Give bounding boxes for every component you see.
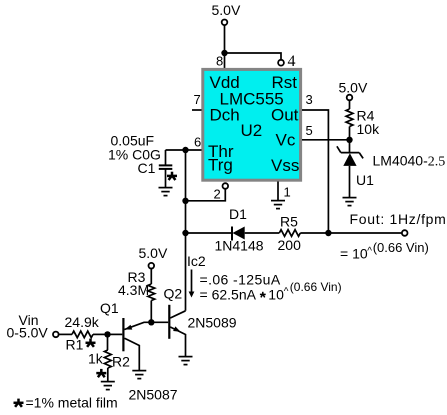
junction Vc/R4/U1 <box>346 137 352 143</box>
svg-text:=.06 -125uA: =.06 -125uA <box>200 272 281 288</box>
asterisk R2 <box>96 369 106 377</box>
Q1 collector <box>125 338 140 370</box>
svg-text:(0.66 Vin): (0.66 Vin) <box>290 280 342 294</box>
wire pin6 to C1 <box>166 149 202 151</box>
svg-text:5.0V: 5.0V <box>139 245 168 261</box>
svg-text:1k: 1k <box>88 351 104 367</box>
small multiply star <box>260 292 266 298</box>
svg-text:5: 5 <box>306 123 313 138</box>
arrow Ic2 <box>191 270 193 295</box>
svg-text:D1: D1 <box>229 206 247 222</box>
wire pin8 stub <box>224 53 226 69</box>
Q1 emitter <box>125 322 152 329</box>
wire vcc vertical <box>224 25 226 53</box>
svg-text:LM4040-2.5: LM4040-2.5 <box>373 153 446 170</box>
resistor R4 <box>349 101 351 110</box>
svg-text:Fout: 1Hz/fpm: Fout: 1Hz/fpm <box>350 211 447 227</box>
resistor R5 <box>279 230 300 237</box>
svg-text:(0.66 Vin): (0.66 Vin) <box>373 240 429 255</box>
wire R1 to node <box>93 333 108 335</box>
svg-text:2N5089: 2N5089 <box>188 315 237 331</box>
terminal 5.0V top <box>222 20 228 26</box>
pin 2 circle <box>223 183 229 189</box>
wire node vertical x=185.5 <box>185 150 187 311</box>
terminal Fout <box>402 230 408 236</box>
junction R1/R2/base <box>104 331 110 337</box>
svg-text:C1: C1 <box>138 160 156 176</box>
svg-text:Out: Out <box>271 106 299 125</box>
wire D1 node to diode <box>186 232 233 234</box>
Q2 collector <box>170 311 185 318</box>
wire pin2 to node <box>186 189 226 201</box>
svg-text:2N5087: 2N5087 <box>129 387 178 403</box>
svg-text:4.3M: 4.3M <box>118 282 149 298</box>
legend asterisk <box>14 399 24 407</box>
svg-text:Dch: Dch <box>210 106 240 125</box>
wire pin5 <box>302 139 350 141</box>
junction Q1 emitter node <box>148 319 154 325</box>
svg-text:1N4148: 1N4148 <box>215 238 264 254</box>
asterisk C1 <box>167 172 177 180</box>
junction pin8/vcc <box>221 50 227 56</box>
svg-text:0-5.0V: 0-5.0V <box>7 325 49 341</box>
svg-text:Vc: Vc <box>276 131 296 150</box>
svg-text:2: 2 <box>214 187 221 202</box>
svg-text:R1: R1 <box>66 337 84 353</box>
Q2 emitter <box>170 327 185 357</box>
asterisk R1 <box>86 339 96 347</box>
resistor R1 <box>72 331 93 338</box>
svg-text:5.0V: 5.0V <box>339 80 368 96</box>
diode D1 <box>231 227 233 241</box>
svg-text:^: ^ <box>284 287 289 298</box>
ground pin1 <box>271 201 285 209</box>
op IC U2 LMC555 body <box>203 69 301 180</box>
svg-text:R2: R2 <box>112 354 130 370</box>
junction trg node <box>182 198 188 204</box>
wire Q1 node to Q2 base <box>151 321 168 323</box>
Q1 base wire <box>108 333 123 335</box>
wire Vin to R1 <box>59 333 72 335</box>
wire pin3 out <box>302 110 328 233</box>
wire pin1 <box>277 182 279 201</box>
zener U1 LM4040 <box>349 140 351 153</box>
wire R5 to Fout <box>300 232 401 234</box>
svg-text:1: 1 <box>284 185 291 200</box>
svg-text:Q1: Q1 <box>100 300 119 316</box>
svg-text:Vss: Vss <box>271 156 299 175</box>
capacitor C1 <box>165 150 167 165</box>
junction thr node <box>182 147 188 153</box>
svg-text:200: 200 <box>278 237 302 253</box>
pin 7 stub <box>192 109 202 111</box>
svg-text:Trg: Trg <box>208 156 233 175</box>
svg-text:= 62.5nA: = 62.5nA <box>200 287 257 303</box>
ground Q2 <box>179 357 193 365</box>
svg-text:Ic2: Ic2 <box>187 253 206 269</box>
wire vcc to pin4 <box>225 53 282 59</box>
svg-text:=1% metal film: =1% metal film <box>26 395 118 411</box>
resistor R3 <box>150 269 152 284</box>
svg-text:7: 7 <box>194 92 201 107</box>
svg-text:3: 3 <box>306 92 313 107</box>
ground U1 <box>343 198 357 206</box>
svg-text:10k: 10k <box>357 121 381 137</box>
transistor Q1 2N5087 <box>122 318 124 351</box>
svg-text:Q2: Q2 <box>164 286 183 302</box>
svg-text:8: 8 <box>216 54 223 69</box>
svg-text:^: ^ <box>367 246 372 257</box>
ground C1 <box>159 188 173 196</box>
resistor R2 <box>107 334 109 350</box>
svg-text:4: 4 <box>288 53 296 70</box>
svg-text:10: 10 <box>268 287 284 303</box>
ground Q1 <box>132 371 146 379</box>
svg-text:= 10: = 10 <box>340 246 368 262</box>
pin 4 circle <box>278 60 284 66</box>
junction out node <box>325 230 331 236</box>
transistor Q2 2N5089 <box>168 305 170 339</box>
svg-text:6: 6 <box>194 135 201 150</box>
terminal Vin <box>53 332 59 338</box>
svg-text:5.0V: 5.0V <box>212 2 241 18</box>
svg-text:U1: U1 <box>356 172 374 188</box>
svg-text:U2: U2 <box>241 121 263 140</box>
svg-text:24.9k: 24.9k <box>65 314 100 330</box>
junction D1 node <box>182 230 188 236</box>
ground R2 <box>101 382 115 390</box>
svg-text:R5: R5 <box>280 214 298 230</box>
